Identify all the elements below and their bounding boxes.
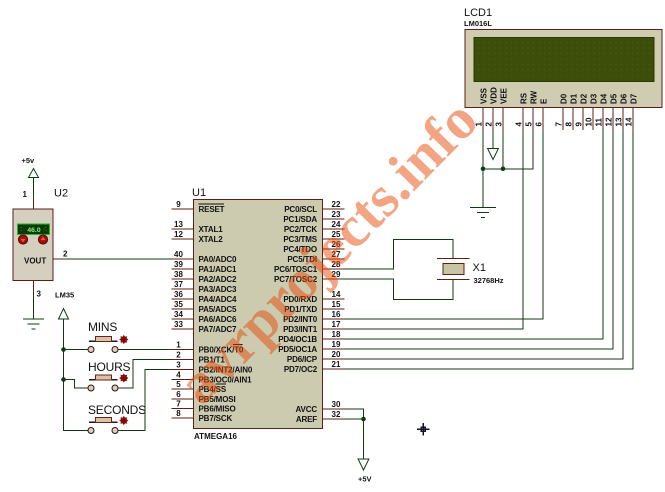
temperature sensor U2 body (LM35) bbox=[13, 209, 53, 281]
wire ground rail VSS-VEE-RW bbox=[483, 130, 533, 169]
svg-text:32768Hz: 32768Hz bbox=[474, 276, 504, 285]
svg-text:13: 13 bbox=[174, 220, 183, 229]
LM016L value label bbox=[464, 19, 492, 28]
U1 pin 39 (PA1/ADC1) bbox=[172, 260, 237, 274]
svg-text:8: 8 bbox=[565, 122, 574, 127]
wire SECONDS to U1 PB2 bbox=[118, 370, 172, 431]
LM35 value label bbox=[55, 291, 74, 300]
U1 pin 7 (PB6/MISO) bbox=[172, 400, 236, 414]
wire U1 PC6/TOSC1 to crystal X1 top bbox=[345, 240, 454, 270]
node junction VEE rail bbox=[501, 167, 506, 172]
push button HOURS label bbox=[88, 360, 131, 374]
svg-text:36: 36 bbox=[174, 290, 183, 299]
svg-text:33: 33 bbox=[174, 320, 183, 329]
crystal X1 bbox=[437, 259, 470, 280]
U1 pin 16 (PD2/INT0) bbox=[283, 310, 344, 324]
svg-text:10: 10 bbox=[585, 117, 594, 126]
svg-text:LCD1: LCD1 bbox=[464, 7, 492, 19]
svg-text:D2: D2 bbox=[580, 93, 589, 104]
origin marker bbox=[417, 423, 430, 436]
U1 pin 24 (PC2/TCK) bbox=[284, 220, 345, 234]
svg-text:5: 5 bbox=[525, 122, 534, 127]
push button HOURS bbox=[88, 375, 118, 391]
LCD1 pin 3 (VEE) bbox=[495, 87, 509, 130]
svg-text:X1: X1 bbox=[473, 262, 486, 274]
LCD1 pin 13 (D6) bbox=[615, 93, 629, 130]
LCD1 pin 9 (D2) bbox=[575, 93, 589, 130]
svg-text:D0: D0 bbox=[560, 93, 569, 104]
svg-text:18: 18 bbox=[332, 330, 341, 339]
node junction VSS rail bbox=[481, 167, 486, 172]
wire button supply bus bbox=[64, 319, 89, 431]
LCD1 pin 2 (VDD) bbox=[485, 87, 499, 130]
U1 pin 9 (RESET) bbox=[172, 200, 225, 214]
U2 VOUT label bbox=[24, 257, 46, 266]
svg-text:34: 34 bbox=[174, 310, 183, 319]
svg-text:19: 19 bbox=[332, 340, 341, 349]
U1 pin 40 (PA0/ADC0) bbox=[172, 250, 237, 264]
svg-text:AREF: AREF bbox=[296, 415, 317, 424]
svg-text:1: 1 bbox=[176, 341, 181, 350]
svg-text:VDD: VDD bbox=[490, 87, 499, 104]
U1 pin 28 (PC6/TOSC1) bbox=[274, 260, 344, 274]
svg-text:12: 12 bbox=[605, 117, 614, 126]
U1 pin 15 (PD1/TXD) bbox=[284, 300, 344, 314]
svg-text:U2: U2 bbox=[54, 188, 68, 200]
svg-text:SECONDS: SECONDS bbox=[88, 403, 146, 417]
wire LCD D4 to U1 PD4 bbox=[345, 130, 604, 339]
ATMEGA16 value label bbox=[194, 432, 238, 441]
svg-text:LM35: LM35 bbox=[55, 291, 74, 300]
wire U1 PC7/TOSC2 to crystal X1 bottom bbox=[345, 279, 454, 300]
U1 pin 32 (AREF) bbox=[296, 410, 345, 424]
U1 pin 4 (PB3/OC0/AIN1) bbox=[172, 371, 253, 385]
wire U1 AVCC to AREF rail bbox=[345, 409, 364, 419]
U1 pin 13 (XTAL1) bbox=[172, 220, 224, 234]
svg-text:MINS: MINS bbox=[88, 320, 117, 334]
svg-text:39: 39 bbox=[174, 260, 183, 269]
svg-text:PD6/ICP: PD6/ICP bbox=[287, 355, 318, 364]
svg-text:16: 16 bbox=[332, 310, 341, 319]
node junction bus/HOURS bbox=[61, 377, 66, 382]
U1 pin 30 (AVCC) bbox=[296, 400, 345, 414]
MINS actuate marker bbox=[119, 335, 128, 344]
svg-text:E: E bbox=[540, 98, 549, 104]
+5V power terminal for buttons bus bbox=[59, 309, 69, 320]
U1 pin 26 (PC4/TDO) bbox=[283, 240, 344, 254]
U1 pin 2 (PB1/T1) bbox=[172, 351, 226, 365]
U2 pin 2 (VOUT) bbox=[53, 250, 68, 260]
svg-text:D4: D4 bbox=[600, 93, 609, 104]
U1 pin 37 (PA3/ADC3) bbox=[172, 280, 237, 294]
+5V power terminal below U1 bbox=[358, 459, 372, 484]
U2 display readout bbox=[18, 224, 50, 235]
U1 pin 8 (PB7/SCK) bbox=[172, 409, 233, 423]
U1 pin 1 (PB0/XCK/T0) bbox=[172, 341, 244, 355]
svg-text:PA3/ADC3: PA3/ADC3 bbox=[199, 285, 237, 294]
svg-text:LM016L: LM016L bbox=[464, 19, 492, 28]
svg-text:1: 1 bbox=[23, 190, 28, 199]
svg-text:PA0/ADC0: PA0/ADC0 bbox=[199, 255, 237, 264]
svg-text:ATMEGA16: ATMEGA16 bbox=[194, 432, 238, 441]
U1 pin 5 (PB4/SS) bbox=[172, 380, 227, 394]
U2 pin 3 bbox=[34, 281, 42, 299]
svg-text:15: 15 bbox=[332, 300, 341, 309]
LCD1 screen bbox=[474, 38, 654, 82]
U1 pin 14 (PD0/RXD) bbox=[283, 290, 344, 304]
U1 pin 19 (PD5/OC1A) bbox=[278, 340, 344, 354]
U2 down knob bbox=[18, 235, 27, 244]
wire bus to HOURS left terminal bbox=[64, 380, 89, 389]
LCD1 pin 8 (D1) bbox=[565, 93, 579, 130]
svg-text:XTAL2: XTAL2 bbox=[199, 235, 224, 244]
U2 pin 1 bbox=[23, 190, 34, 209]
svg-text:7: 7 bbox=[176, 400, 181, 409]
svg-text:13: 13 bbox=[615, 117, 624, 126]
LCD1 pin 12 (D5) bbox=[605, 93, 619, 130]
svg-text:14: 14 bbox=[625, 117, 634, 126]
push button SECONDS bbox=[88, 418, 118, 434]
svg-text:2: 2 bbox=[63, 250, 68, 259]
svg-text:+5v: +5v bbox=[22, 156, 36, 165]
svg-text:11: 11 bbox=[595, 117, 604, 126]
svg-text:46.0: 46.0 bbox=[27, 227, 40, 234]
wire LCD VEE down bbox=[502, 130, 504, 169]
U1 pin 27 (PC5/TDI) bbox=[287, 250, 344, 264]
svg-text:21: 21 bbox=[332, 360, 341, 369]
wire LCD D5 to U1 PD5 bbox=[345, 130, 614, 349]
push button MINS bbox=[88, 337, 118, 353]
svg-text:PA2/ADC2: PA2/ADC2 bbox=[199, 275, 237, 284]
LCD1 pin 1 (VSS) bbox=[475, 87, 489, 130]
ground below LCD bbox=[470, 208, 496, 218]
svg-text:VEE: VEE bbox=[500, 87, 509, 104]
svg-text:4: 4 bbox=[515, 122, 524, 127]
svg-text:+5V: +5V bbox=[358, 475, 372, 484]
LCD1 pin 7 (D0) bbox=[555, 93, 569, 130]
svg-text:D6: D6 bbox=[620, 93, 629, 104]
svg-text:9: 9 bbox=[575, 122, 584, 127]
svg-text:40: 40 bbox=[174, 250, 183, 259]
svg-text:17: 17 bbox=[332, 320, 341, 329]
U1 pin 36 (PA4/ADC4) bbox=[172, 290, 237, 304]
svg-text:32: 32 bbox=[332, 410, 341, 419]
wire U1 AREF to +5V bbox=[345, 419, 364, 459]
wire LCD D7 to U1 PD7 bbox=[345, 130, 634, 369]
LCD1 pin 4 (RS) bbox=[515, 92, 529, 130]
wire LCD E to U1 PD2 bbox=[345, 130, 544, 319]
svg-text:RS: RS bbox=[520, 92, 529, 104]
wire LCD D6 to U1 PD6 bbox=[345, 130, 624, 359]
+5v power terminal above U2 bbox=[22, 156, 39, 196]
U1 pin 17 (PD3/INT1) bbox=[283, 320, 344, 334]
LCD1 pin 6 (E) bbox=[535, 98, 549, 130]
svg-text:D7: D7 bbox=[630, 93, 639, 104]
svg-text:3: 3 bbox=[37, 290, 42, 299]
svg-text:PD5/OC1A: PD5/OC1A bbox=[278, 345, 317, 354]
svg-text:7: 7 bbox=[555, 122, 564, 127]
node junction bus/MINS bbox=[61, 347, 66, 352]
32768Hz value label bbox=[474, 276, 504, 285]
svg-text:6: 6 bbox=[535, 122, 544, 127]
svg-text:RW: RW bbox=[530, 90, 539, 104]
U1 reference label bbox=[192, 187, 206, 199]
U1 pin 21 (PD7/OC2) bbox=[284, 360, 345, 374]
IC U1 (ATMEGA16 microcontroller) bbox=[194, 200, 323, 429]
svg-text:20: 20 bbox=[332, 350, 341, 359]
svg-text:PB7/SCK: PB7/SCK bbox=[199, 414, 233, 423]
U1 pin 6 (PB5/MOSI) bbox=[172, 390, 236, 404]
U1 pin 25 (PC3/TMS) bbox=[283, 230, 344, 244]
svg-text:AVCC: AVCC bbox=[296, 405, 318, 414]
wire HOURS to U1 PB1 bbox=[118, 360, 172, 389]
push button SECONDS label bbox=[88, 403, 146, 417]
watermark avrprojects.info bbox=[164, 86, 491, 417]
LCD1 reference label bbox=[464, 7, 492, 19]
svg-text:RESET: RESET bbox=[199, 205, 225, 214]
svg-text:PD7/OC2: PD7/OC2 bbox=[284, 365, 318, 374]
U1 pin 18 (PD4/OC1B) bbox=[278, 330, 344, 344]
svg-text:35: 35 bbox=[174, 300, 183, 309]
wire MINS to U1 PB0 bbox=[118, 349, 172, 351]
svg-text:D5: D5 bbox=[610, 93, 619, 104]
LCD1 body (LM016L display module) bbox=[465, 30, 662, 108]
U1 pin 23 (PC1/SDA) bbox=[283, 210, 344, 224]
svg-text:3: 3 bbox=[495, 122, 504, 127]
U2 reference label bbox=[54, 188, 68, 200]
svg-text:HOURS: HOURS bbox=[88, 360, 131, 374]
LCD1 pin 14 (D7) bbox=[625, 93, 639, 130]
U1 pin 20 (PD6/ICP) bbox=[287, 350, 345, 364]
U1 pin 38 (PA2/ADC2) bbox=[172, 270, 237, 284]
svg-text:9: 9 bbox=[176, 200, 181, 209]
wire bus to MINS left terminal bbox=[64, 349, 89, 351]
HOURS actuate marker bbox=[119, 373, 128, 382]
power terminal at LCD VDD bbox=[488, 130, 499, 160]
U1 pin 22 (PC0/SCL) bbox=[284, 200, 344, 214]
svg-text:38: 38 bbox=[174, 270, 183, 279]
LCD1 pin 10 (D3) bbox=[585, 93, 599, 130]
wire U2 VOUT to U1 PA0 bbox=[65, 258, 172, 260]
LCD1 pin 11 (D4) bbox=[595, 93, 609, 130]
svg-text:XTAL1: XTAL1 bbox=[199, 225, 224, 234]
U2 up knob bbox=[38, 235, 47, 244]
wire LCD VSS down to ground bbox=[482, 130, 484, 208]
node junction AVCC/AREF bbox=[361, 417, 366, 422]
svg-text:2: 2 bbox=[485, 122, 494, 127]
LCD1 pin 5 (RW) bbox=[525, 90, 539, 130]
U1 pin 34 (PA6/ADC6) bbox=[172, 310, 237, 324]
X1 reference label bbox=[473, 262, 486, 274]
svg-text:PA1/ADC1: PA1/ADC1 bbox=[199, 265, 237, 274]
push button MINS label bbox=[88, 320, 117, 334]
U1 pin 3 (PB2/INT2/AIN0) bbox=[172, 361, 253, 375]
U1 pin 33 (PA7/ADC7) bbox=[172, 320, 237, 334]
U1 pin 29 (PC7/TOSC2) bbox=[274, 270, 344, 284]
svg-text:6: 6 bbox=[176, 390, 181, 399]
U1 pin 35 (PA5/ADC5) bbox=[172, 300, 237, 314]
svg-text:30: 30 bbox=[332, 400, 341, 409]
svg-text:U1: U1 bbox=[192, 187, 206, 199]
svg-text:PC0/SCL: PC0/SCL bbox=[284, 205, 317, 214]
svg-text:VOUT: VOUT bbox=[24, 257, 46, 266]
ground below U2 bbox=[23, 293, 44, 329]
wire LCD RS to U1 PD3 bbox=[345, 130, 524, 329]
U1 pin 12 (XTAL2) bbox=[172, 230, 224, 244]
SECONDS actuate marker bbox=[119, 416, 128, 425]
svg-text:D3: D3 bbox=[590, 93, 599, 104]
svg-text:D1: D1 bbox=[570, 93, 579, 104]
svg-text:8: 8 bbox=[176, 409, 181, 418]
svg-text:12: 12 bbox=[174, 230, 183, 239]
svg-text:VSS: VSS bbox=[480, 87, 489, 104]
svg-text:37: 37 bbox=[174, 280, 183, 289]
